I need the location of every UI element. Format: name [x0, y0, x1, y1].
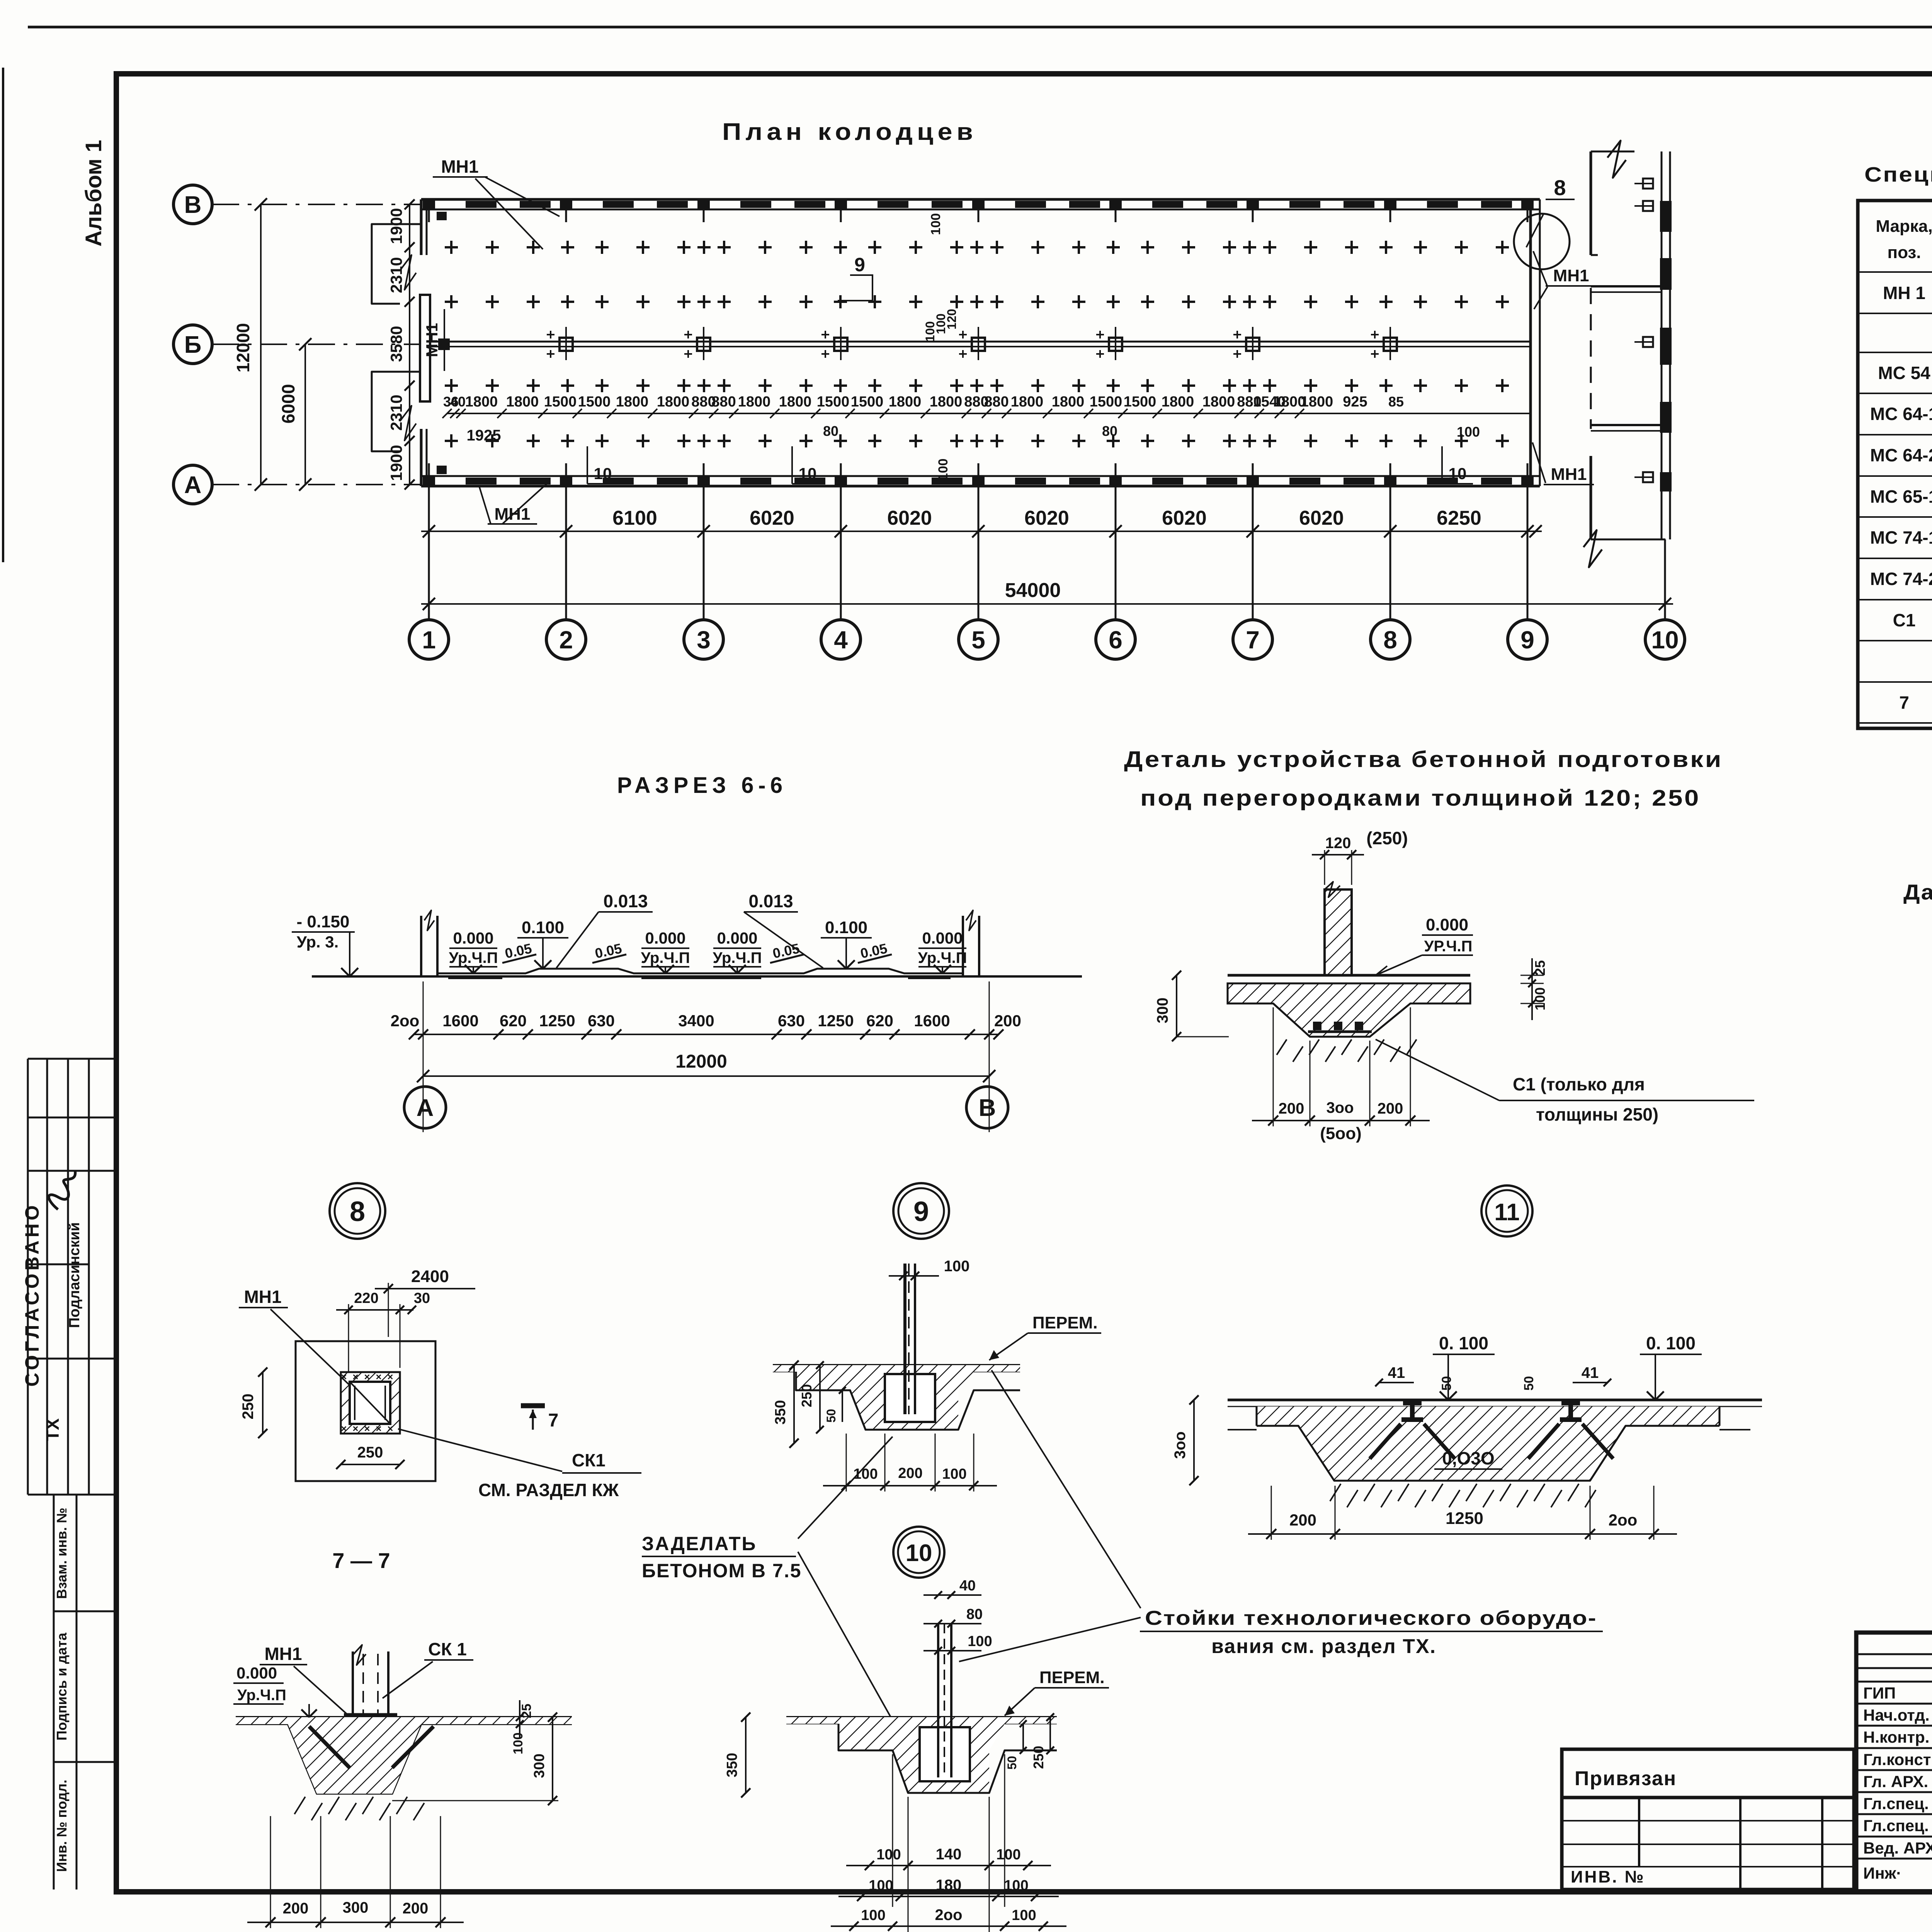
svg-text:1250: 1250 — [818, 1012, 854, 1030]
svg-text:80: 80 — [966, 1606, 983, 1622]
svg-text:×: × — [341, 1423, 347, 1434]
svg-text:МН1: МН1 — [1553, 266, 1589, 285]
svg-text:40: 40 — [450, 394, 466, 410]
svg-text:Альбом 1: Альбом 1 — [81, 140, 106, 247]
svg-text:3oo: 3oo — [1326, 1099, 1354, 1116]
svg-text:МН1: МН1 — [441, 156, 478, 177]
svg-text:620: 620 — [500, 1012, 527, 1030]
svg-text:2310: 2310 — [387, 395, 405, 430]
svg-text:Данный лист смотреть совмес: Данный лист смотреть совместно с листами… — [1903, 880, 1932, 904]
svg-text:140: 140 — [936, 1846, 962, 1863]
svg-text:ИНВ. №: ИНВ. № — [1571, 1867, 1645, 1886]
svg-text:50: 50 — [1522, 1376, 1536, 1391]
svg-text:1800: 1800 — [930, 394, 963, 410]
svg-text:41: 41 — [1582, 1364, 1599, 1381]
svg-text:ЗАДЕЛАТЬ: ЗАДЕЛАТЬ — [642, 1533, 757, 1554]
svg-text:Гл.конст·: Гл.конст· — [1863, 1750, 1932, 1769]
svg-text:СОГЛАСОВАНО: СОГЛАСОВАНО — [21, 1202, 43, 1386]
svg-text:Взам. инв. №: Взам. инв. № — [54, 1508, 70, 1599]
svg-text:1250: 1250 — [539, 1012, 575, 1030]
svg-text:0.000: 0.000 — [645, 929, 685, 947]
svg-text:УР.Ч.П: УР.Ч.П — [1424, 938, 1473, 955]
svg-text:100: 100 — [942, 1466, 966, 1482]
svg-text:200: 200 — [403, 1900, 429, 1917]
svg-text:МН1: МН1 — [1551, 465, 1587, 484]
svg-text:25: 25 — [1532, 960, 1548, 976]
svg-text:100: 100 — [929, 213, 943, 235]
svg-text:6020: 6020 — [750, 507, 794, 529]
svg-text:9: 9 — [854, 254, 865, 276]
svg-text:1500: 1500 — [544, 394, 577, 410]
svg-text:В: В — [979, 1095, 996, 1121]
svg-text:А: А — [417, 1095, 434, 1121]
svg-text:3oo: 3oo — [1172, 1431, 1189, 1459]
svg-text:Ур.Ч.П: Ур.Ч.П — [449, 949, 498, 966]
svg-text:поз.: поз. — [1888, 243, 1921, 262]
svg-text:1800: 1800 — [779, 394, 812, 410]
svg-text:100: 100 — [944, 1258, 970, 1275]
svg-text:(5oo): (5oo) — [1320, 1124, 1362, 1143]
svg-text:Стойки технологического обор: Стойки технологического оборудо- — [1145, 1607, 1597, 1629]
svg-text:БЕТОНОМ В 7.5: БЕТОНОМ В 7.5 — [642, 1560, 802, 1582]
svg-text:Ур.Ч.П: Ур.Ч.П — [237, 1687, 286, 1704]
svg-text:МС 74-1: МС 74-1 — [1870, 527, 1932, 548]
svg-text:200: 200 — [1378, 1100, 1403, 1117]
svg-text:СМ. РАЗДЕЛ КЖ: СМ. РАЗДЕЛ КЖ — [478, 1480, 619, 1500]
svg-text:7: 7 — [1246, 626, 1260, 654]
svg-text:300: 300 — [1154, 998, 1171, 1024]
svg-text:1800: 1800 — [1202, 394, 1235, 410]
svg-text:×: × — [387, 1371, 393, 1383]
svg-text:×: × — [352, 1423, 358, 1434]
svg-text:100: 100 — [1532, 987, 1548, 1010]
svg-text:1500: 1500 — [817, 394, 850, 410]
svg-text:100: 100 — [1004, 1878, 1028, 1894]
svg-text:1900: 1900 — [387, 208, 405, 244]
svg-text:80: 80 — [1102, 423, 1117, 439]
svg-text:Инж·: Инж· — [1863, 1864, 1901, 1882]
svg-text:1800: 1800 — [1162, 394, 1194, 410]
svg-text:0.013: 0.013 — [748, 891, 793, 911]
svg-text:×: × — [364, 1423, 370, 1434]
svg-text:0.100: 0.100 — [825, 918, 867, 937]
svg-text:6100: 6100 — [612, 507, 657, 529]
svg-text:6: 6 — [1109, 626, 1122, 654]
svg-text:1500: 1500 — [851, 394, 884, 410]
svg-text:0.100: 0.100 — [522, 918, 564, 937]
svg-text:С1: С1 — [1893, 610, 1916, 630]
svg-text:7: 7 — [548, 1410, 559, 1431]
svg-text:1600: 1600 — [914, 1012, 950, 1030]
svg-text:630: 630 — [778, 1012, 805, 1030]
svg-text:1800: 1800 — [1052, 394, 1085, 410]
svg-text:- 0.150: - 0.150 — [297, 912, 350, 931]
svg-text:СК 1: СК 1 — [428, 1639, 467, 1659]
svg-text:1500: 1500 — [1090, 394, 1122, 410]
svg-text:Подласинский: Подласинский — [66, 1222, 83, 1328]
svg-text:вания см. раздел ТХ.: вания см. раздел ТХ. — [1211, 1635, 1436, 1658]
svg-text:МС 54: МС 54 — [1878, 363, 1930, 383]
svg-text:1800: 1800 — [657, 394, 690, 410]
svg-text:МН1: МН1 — [264, 1644, 302, 1664]
svg-text:0.000: 0.000 — [453, 929, 493, 947]
svg-text:200: 200 — [283, 1900, 309, 1917]
svg-text:Гл.спец.: Гл.спец. — [1863, 1816, 1929, 1835]
svg-text:1800: 1800 — [506, 394, 539, 410]
svg-text:1800: 1800 — [1011, 394, 1044, 410]
svg-text:0.000: 0.000 — [922, 929, 963, 947]
svg-text:1250: 1250 — [1446, 1509, 1483, 1528]
svg-text:В: В — [184, 192, 202, 218]
svg-text:1800: 1800 — [738, 394, 771, 410]
svg-text:ТХ: ТХ — [43, 1418, 63, 1441]
svg-text:×: × — [387, 1423, 393, 1434]
svg-text:250: 250 — [357, 1444, 383, 1461]
svg-text:350: 350 — [772, 1400, 789, 1424]
svg-text:МС 65-1: МС 65-1 — [1870, 486, 1932, 507]
svg-text:3580: 3580 — [387, 326, 405, 362]
svg-text:300: 300 — [343, 1899, 369, 1916]
svg-text:8: 8 — [1383, 626, 1397, 654]
svg-text:МС 74-2: МС 74-2 — [1870, 569, 1932, 589]
svg-text:8: 8 — [350, 1196, 365, 1227]
svg-text:ГИП: ГИП — [1863, 1684, 1896, 1702]
svg-text:1600: 1600 — [442, 1012, 478, 1030]
svg-text:6020: 6020 — [1024, 507, 1069, 529]
svg-text:0.000: 0.000 — [236, 1664, 277, 1682]
svg-text:2oo: 2oo — [1609, 1511, 1638, 1529]
svg-text:2oo: 2oo — [391, 1012, 420, 1030]
svg-text:620: 620 — [866, 1012, 893, 1030]
svg-text:РАЗРЕЗ 6-6: РАЗРЕЗ 6-6 — [617, 773, 787, 798]
svg-text:180: 180 — [936, 1877, 962, 1894]
svg-text:МС 64-2: МС 64-2 — [1870, 445, 1932, 465]
svg-text:Н.контр.: Н.контр. — [1863, 1728, 1929, 1746]
svg-text:под перегородками толщиной 120: под перегородками толщиной 120; 250 — [1140, 786, 1701, 811]
svg-text:1800: 1800 — [889, 394, 922, 410]
svg-text:10: 10 — [1449, 464, 1467, 483]
svg-text:100: 100 — [876, 1847, 901, 1863]
svg-text:Деталь устройства бетонной под: Деталь устройства бетонной подготовки — [1124, 747, 1723, 772]
svg-text:7: 7 — [1899, 692, 1909, 713]
svg-text:3400: 3400 — [678, 1012, 714, 1030]
svg-text:(250): (250) — [1366, 828, 1408, 848]
svg-text:880: 880 — [984, 394, 1009, 410]
svg-text:80: 80 — [823, 423, 838, 439]
svg-text:10: 10 — [594, 464, 612, 483]
svg-text:9: 9 — [913, 1196, 929, 1227]
svg-text:200: 200 — [994, 1012, 1021, 1030]
svg-text:100: 100 — [1012, 1907, 1036, 1923]
svg-text:×: × — [376, 1371, 381, 1383]
svg-text:6020: 6020 — [1162, 507, 1207, 529]
svg-text:250: 250 — [240, 1394, 257, 1420]
svg-text:250: 250 — [799, 1384, 815, 1407]
svg-text:40: 40 — [959, 1578, 976, 1594]
svg-text:880: 880 — [711, 394, 736, 410]
svg-text:50: 50 — [1439, 1376, 1454, 1391]
svg-text:2: 2 — [559, 626, 573, 654]
svg-text:925: 925 — [1343, 394, 1367, 410]
svg-text:С1 (только для: С1 (только для — [1513, 1074, 1645, 1094]
svg-text:ПЕРЕМ.: ПЕРЕМ. — [1032, 1313, 1098, 1332]
svg-text:Б: Б — [184, 332, 202, 358]
svg-text:СК1: СК1 — [572, 1450, 605, 1470]
svg-text:1: 1 — [422, 626, 436, 654]
svg-text:А: А — [184, 472, 202, 498]
svg-text:25: 25 — [519, 1704, 534, 1718]
svg-text:50: 50 — [824, 1409, 838, 1423]
svg-text:2400: 2400 — [411, 1267, 449, 1286]
svg-text:Привязан: Привязан — [1575, 1767, 1677, 1790]
svg-text:Инв. № подл.: Инв. № подл. — [54, 1780, 70, 1872]
svg-text:1900: 1900 — [387, 445, 405, 481]
svg-text:0.013: 0.013 — [603, 891, 648, 911]
svg-text:100: 100 — [968, 1633, 992, 1650]
svg-text:6020: 6020 — [1299, 507, 1344, 529]
svg-text:1500: 1500 — [578, 394, 611, 410]
svg-text:1925: 1925 — [467, 427, 501, 444]
svg-text:Подпись и дата: Подпись и дата — [54, 1633, 70, 1741]
svg-text:МН1: МН1 — [244, 1287, 281, 1307]
svg-text:×: × — [364, 1371, 370, 1383]
svg-text:300: 300 — [531, 1753, 548, 1778]
svg-text:1800: 1800 — [465, 394, 498, 410]
svg-text:7 — 7: 7 — 7 — [332, 1548, 390, 1573]
svg-text:350: 350 — [724, 1753, 740, 1777]
svg-text:200: 200 — [898, 1465, 922, 1481]
svg-text:11: 11 — [1494, 1199, 1520, 1226]
svg-text:Ур. 3.: Ур. 3. — [297, 933, 339, 951]
svg-text:54000: 54000 — [1005, 579, 1061, 602]
svg-text:0. 100: 0. 100 — [1646, 1333, 1696, 1353]
svg-text:630: 630 — [588, 1012, 615, 1030]
svg-text:100: 100 — [861, 1907, 885, 1923]
svg-text:Марка,: Марка, — [1876, 217, 1932, 236]
svg-text:10: 10 — [906, 1540, 932, 1566]
svg-text:Ур.Ч.П: Ур.Ч.П — [713, 949, 762, 966]
svg-text:Вед. АРХ.: Вед. АРХ. — [1863, 1839, 1932, 1857]
svg-text:100: 100 — [511, 1733, 526, 1755]
svg-text:41: 41 — [1388, 1364, 1405, 1381]
svg-text:50: 50 — [1005, 1756, 1019, 1770]
svg-text:6000: 6000 — [278, 384, 298, 423]
svg-text:120: 120 — [945, 309, 959, 329]
svg-text:ПЕРЕМ.: ПЕРЕМ. — [1039, 1668, 1105, 1687]
svg-text:План колодцев: План колодцев — [722, 119, 977, 145]
svg-text:МН1: МН1 — [423, 323, 441, 357]
svg-text:30: 30 — [414, 1290, 430, 1306]
svg-text:250: 250 — [1031, 1746, 1046, 1769]
svg-text:Нач.отд.: Нач.отд. — [1863, 1706, 1930, 1724]
svg-text:МН 1: МН 1 — [1883, 283, 1925, 303]
svg-text:9: 9 — [1520, 626, 1534, 654]
svg-text:100: 100 — [869, 1878, 893, 1894]
svg-text:0. 100: 0. 100 — [1439, 1333, 1488, 1353]
svg-text:6250: 6250 — [1437, 507, 1481, 529]
svg-text:5: 5 — [971, 626, 985, 654]
svg-text:толщины 250): толщины 250) — [1536, 1104, 1658, 1124]
svg-text:0,О3О: 0,О3О — [1442, 1448, 1495, 1468]
svg-text:МС 64-1: МС 64-1 — [1870, 404, 1932, 424]
svg-text:12000: 12000 — [233, 323, 253, 372]
svg-text:Ур.Ч.П: Ур.Ч.П — [918, 949, 967, 966]
svg-text:200: 200 — [1289, 1511, 1316, 1529]
svg-text:1800: 1800 — [1301, 394, 1333, 410]
svg-text:10: 10 — [1651, 626, 1679, 654]
svg-text:6020: 6020 — [887, 507, 932, 529]
svg-text:10: 10 — [799, 464, 817, 483]
svg-text:0.000: 0.000 — [717, 929, 757, 947]
svg-text:Ур.Ч.П: Ур.Ч.П — [641, 949, 690, 966]
svg-text:0.000: 0.000 — [1426, 915, 1468, 934]
svg-text:3: 3 — [697, 626, 711, 654]
svg-text:Гл.спец.: Гл.спец. — [1863, 1794, 1929, 1813]
svg-text:8: 8 — [1554, 175, 1566, 200]
svg-text:100: 100 — [936, 459, 951, 481]
svg-text:12000: 12000 — [675, 1051, 727, 1072]
svg-text:100: 100 — [996, 1847, 1020, 1863]
svg-text:100: 100 — [1457, 424, 1480, 440]
svg-text:Спецификация элементов пола: Спецификация элементов пола и крепления … — [1864, 163, 1932, 186]
svg-text:×: × — [376, 1423, 381, 1434]
svg-text:1800: 1800 — [616, 394, 649, 410]
svg-text:Гл. АРХ.: Гл. АРХ. — [1863, 1772, 1928, 1791]
svg-text:200: 200 — [1279, 1100, 1304, 1117]
svg-text:4: 4 — [834, 626, 848, 654]
svg-text:220: 220 — [354, 1290, 378, 1306]
svg-text:×: × — [352, 1371, 358, 1383]
svg-text:2oo: 2oo — [935, 1906, 962, 1923]
svg-text:2310: 2310 — [387, 257, 405, 293]
svg-text:120: 120 — [1325, 835, 1351, 852]
svg-text:1500: 1500 — [1124, 394, 1156, 410]
svg-text:85: 85 — [1388, 394, 1404, 410]
